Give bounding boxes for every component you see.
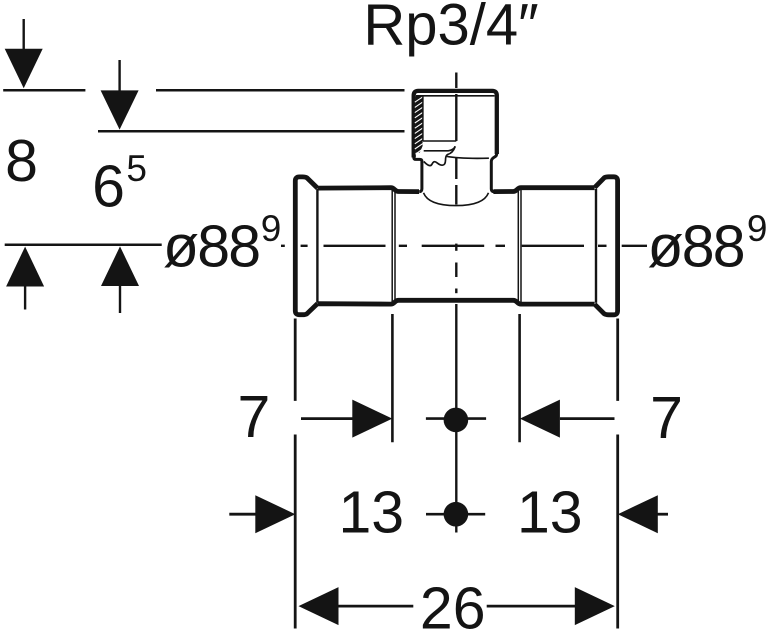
arrow up for dim 6.5 — [101, 246, 139, 286]
svg-text:Rp3/4″: Rp3/4″ — [363, 0, 538, 58]
svg-text:7: 7 — [237, 384, 270, 450]
branch socket outline (Rp3/4 thread socket) — [414, 91, 497, 158]
arrow up for dim 8 — [6, 247, 44, 287]
thread runout line — [424, 146, 456, 151]
svg-text:26: 26 — [420, 576, 486, 632]
branch neck walls — [414, 152, 497, 192]
thread bore edge — [422, 96, 424, 141]
extension line right end — [616, 319, 619, 401]
fitting outer silhouette: main run with press sockets and end beads — [295, 177, 617, 315]
extension line left end — [294, 319, 297, 401]
saddle arc under branch — [424, 193, 489, 206]
dim row 13 centre tick and dot — [426, 513, 485, 516]
bead boundary line left — [316, 189, 318, 303]
dim row 26: left arrow — [299, 587, 339, 625]
dim row 7 centre tick and dot — [426, 417, 486, 420]
dim row 13 right: arrow and line — [618, 495, 658, 533]
svg-text:6: 6 — [92, 154, 125, 220]
branch centreline (dash-dot) — [455, 73, 457, 533]
ref line for dim 8, right segment to branch socket — [156, 89, 405, 92]
extension line left step — [391, 314, 394, 442]
step lines left socket — [391, 189, 393, 304]
svg-text:ø88: ø88 — [648, 214, 744, 280]
dim row 26: right arrow — [487, 605, 576, 608]
ref line for dim 6.5 (thread end) — [98, 130, 405, 133]
weld tongue outline — [424, 146, 455, 165]
dim row 7 right: arrow and line — [520, 400, 560, 438]
arrow down for dim 8 — [5, 49, 43, 88]
step lines right socket — [517, 190, 519, 303]
ref line for dim 8 (top of branch), left segment — [3, 89, 85, 92]
thread hatch band — [416, 97, 423, 153]
dim row 13 left: line and arrow — [229, 513, 256, 516]
bore centre section edge — [455, 94, 457, 141]
dim row 7 left: line and arrow — [301, 417, 353, 420]
bore bottom — [423, 140, 456, 142]
arrow down for dim 6.5 — [101, 90, 139, 129]
svg-text:8: 8 — [5, 128, 38, 194]
ref line pipe axis left — [5, 243, 162, 246]
svg-text:7: 7 — [650, 385, 683, 451]
svg-text:5: 5 — [126, 148, 147, 189]
svg-text:ø88: ø88 — [163, 214, 259, 280]
pipe centreline (dash-dot) — [281, 245, 647, 247]
extension line right step — [518, 314, 521, 442]
svg-text:9: 9 — [747, 208, 768, 249]
branch inner rim line — [416, 95, 495, 97]
svg-text:13: 13 — [338, 480, 404, 546]
svg-text:9: 9 — [261, 208, 282, 249]
branch right outer rim line — [447, 156, 489, 158]
svg-text:13: 13 — [517, 480, 583, 546]
bead boundary line right — [595, 189, 597, 303]
